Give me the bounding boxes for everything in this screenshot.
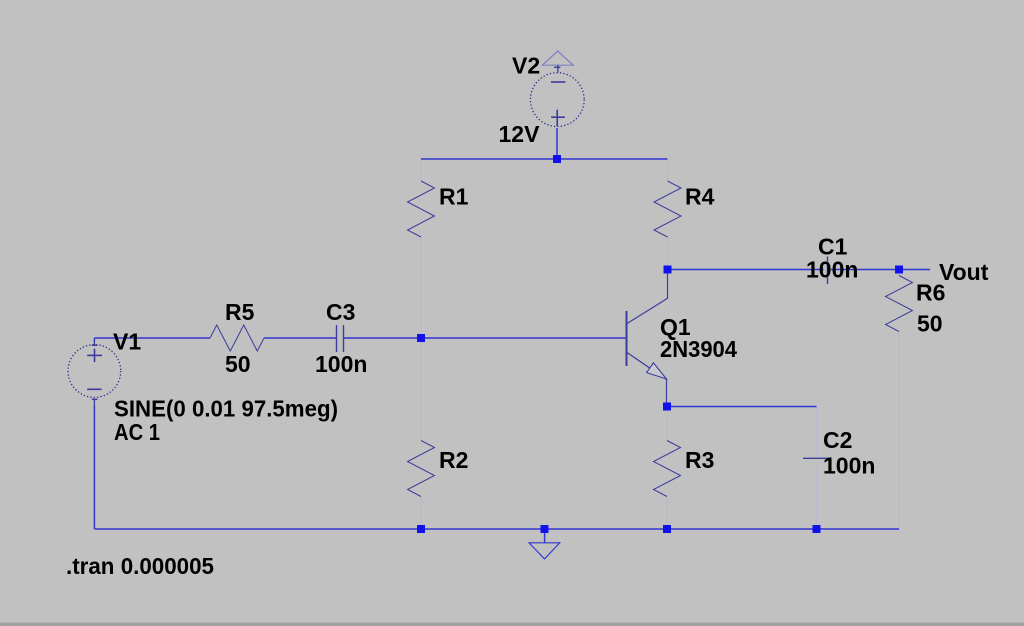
svg-text:50: 50 — [225, 351, 251, 377]
svg-text:C2: C2 — [823, 427, 852, 453]
svg-text:SINE(0 0.01 97.5meg): SINE(0 0.01 97.5meg) — [114, 396, 338, 422]
svg-text:12V: 12V — [499, 121, 541, 147]
svg-text:R3: R3 — [685, 447, 714, 473]
svg-text:.tran 0.000005: .tran 0.000005 — [66, 553, 214, 579]
svg-text:C3: C3 — [326, 299, 355, 325]
svg-text:AC 1: AC 1 — [114, 419, 160, 445]
svg-text:V1: V1 — [113, 329, 141, 355]
svg-text:100n: 100n — [315, 351, 367, 377]
svg-text:R4: R4 — [685, 184, 715, 210]
svg-text:100n: 100n — [806, 257, 858, 283]
svg-text:V2: V2 — [512, 53, 540, 79]
svg-text:100n: 100n — [823, 453, 875, 479]
svg-text:2N3904: 2N3904 — [660, 336, 737, 362]
svg-text:R5: R5 — [225, 299, 255, 325]
svg-text:R2: R2 — [439, 447, 468, 473]
svg-text:R6: R6 — [916, 280, 945, 306]
svg-text:R1: R1 — [439, 184, 469, 210]
svg-text:Vout: Vout — [939, 259, 989, 285]
svg-text:50: 50 — [917, 311, 943, 337]
